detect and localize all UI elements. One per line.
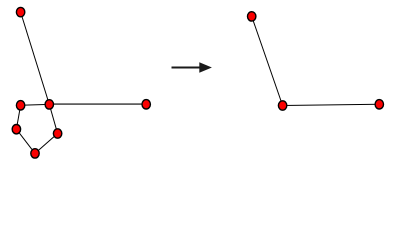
wire B-C (left graph, junction to pentagon top-left) bbox=[21, 103, 50, 106]
node D (pentagon left-mid) bbox=[12, 125, 20, 134]
wire F-B (pentagon right side up to junction) bbox=[49, 104, 57, 133]
wire H-I (right graph, top node to middle node) bbox=[252, 16, 283, 105]
node A (left graph top) bbox=[16, 7, 24, 16]
node F (pentagon right-mid) bbox=[53, 129, 61, 138]
wire I-J (right graph, horizontal edge) bbox=[283, 104, 380, 105]
node J (right graph right) bbox=[375, 100, 383, 109]
wire D-E (pentagon lower-left side) bbox=[16, 129, 35, 153]
node C (pentagon top-left) bbox=[16, 101, 24, 110]
node G (left graph far right) bbox=[142, 100, 150, 109]
node I (right graph middle) bbox=[278, 101, 286, 110]
arrow head bbox=[199, 62, 212, 73]
wire B-G (long horizontal edge from junction to right node) bbox=[49, 103, 146, 105]
node E (pentagon bottom) bbox=[31, 149, 39, 158]
wire E-F (pentagon lower-right side) bbox=[35, 134, 58, 154]
node H (right graph top) bbox=[248, 12, 256, 21]
wire A-B (left graph, long edge from top node to junction) bbox=[21, 12, 50, 104]
wire C-D (pentagon left side) bbox=[16, 105, 20, 129]
node B (left graph junction) bbox=[45, 100, 53, 109]
arrow shaft (transformation arrow) bbox=[172, 67, 201, 69]
